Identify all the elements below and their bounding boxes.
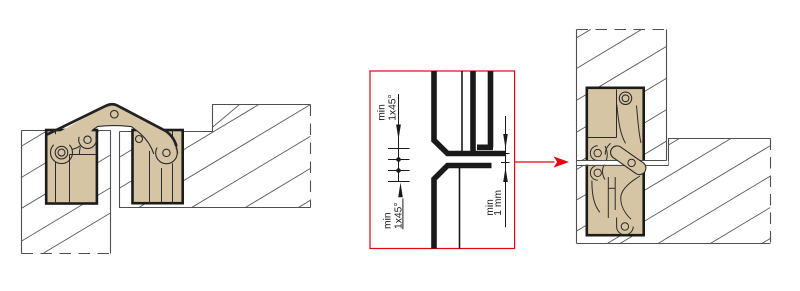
svg-text:min: min (376, 104, 387, 121)
left panel hatching (22, 93, 110, 253)
arm edge into left cup (79, 147, 80, 155)
door hatching (576, 29, 667, 160)
groove line lower (thin) (459, 168, 461, 249)
label min 1x45 lower (382, 203, 404, 229)
linkage inner cutout outline and right arm edge (93, 126, 154, 154)
door edge section lower (thick) with chamfer (434, 166, 492, 249)
left big pivot lobe arc (51, 145, 73, 164)
right dimension line 1 mm (501, 116, 510, 227)
left dimension arrowheads and dots (396, 125, 403, 198)
right panel hatching (120, 104, 311, 207)
bottom pivot lobe (617, 227, 634, 235)
hinge cup left (mortised in left panel) (46, 130, 97, 204)
hinge cup (vertical, spans door and frame) (587, 88, 644, 235)
svg-text:1x45°: 1x45° (388, 94, 399, 120)
red detail frame (370, 71, 515, 249)
svg-text:min: min (382, 212, 393, 229)
mid-right pivot hole (136, 136, 143, 143)
wavy arm outline center (603, 146, 608, 180)
diagonal link arm crossing the gap (611, 146, 646, 175)
linkage lower-right outer edge (176, 147, 177, 154)
middle slider lines (608, 177, 615, 218)
left panel (door section, hatched) (22, 131, 111, 254)
frame edge upper (thick, with foot) (488, 71, 494, 147)
left knuckle lobes (590, 146, 597, 161)
groove line upper (thin) (461, 71, 463, 155)
lower S arm outline (621, 176, 640, 219)
apex pivot hole (111, 110, 119, 118)
label min 1x45 upper (376, 94, 398, 120)
door face line upper (thick) (470, 71, 476, 153)
right pivot hole (163, 149, 170, 156)
left dimension line 1x45 (388, 94, 410, 182)
upper knuckle link edge (605, 143, 610, 154)
right cup interior lines (150, 131, 173, 204)
red leader arrow to right figure (515, 161, 555, 163)
frame hatching (576, 138, 770, 243)
mid-left pivot hole (84, 136, 91, 143)
left arm edge lower (592, 181, 600, 213)
top pivot bushing rings (619, 92, 631, 104)
right pivot lobe arc (156, 148, 178, 164)
folded arm edges from top pivot (617, 105, 626, 144)
small tick under foot (479, 152, 485, 154)
door edge section upper (thick) with chamfer (434, 71, 506, 154)
tangent connector between left lobes (72, 145, 81, 149)
hinge cup right (mortised in right panel) (133, 130, 183, 203)
hinge linkage tent body (tan fill) (49, 104, 178, 164)
mid-left pivot lobe arc (79, 137, 97, 149)
joint gap band (door bottom edge / frame ledge) (577, 161, 669, 165)
thick top edge of linkage (47, 104, 177, 146)
door panel (vertical, hatched) (577, 30, 667, 244)
svg-text:1 mm: 1 mm (493, 190, 504, 216)
left big pivot bushing rings (55, 146, 68, 159)
frame panel (horizontal, hatched) (577, 139, 771, 244)
right panel (frame section, hatched) (120, 105, 311, 208)
diagonal arm pivot hole (628, 159, 635, 166)
cup inner box lines (587, 90, 617, 138)
label min 1 mm (485, 190, 504, 216)
left cup interior lines (56, 131, 96, 204)
